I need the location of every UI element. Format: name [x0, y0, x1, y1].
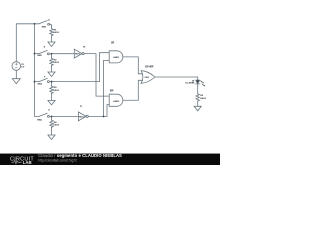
switch SW2	[39, 50, 47, 53]
svg-text:B'F: B'F	[110, 91, 114, 93]
svg-text:100 Ω: 100 Ω	[53, 90, 59, 92]
wire AND1 output to OR top input	[123, 57, 143, 74]
OR gate OR1	[141, 71, 155, 84]
wire R3 to ground	[51, 94, 53, 101]
wire SW2 node down	[51, 54, 53, 58]
node bus row3	[34, 81, 36, 83]
AND gate AND2	[109, 94, 123, 106]
svg-text:AND1: AND1	[113, 56, 120, 59]
bus vertical wire	[34, 24, 36, 117]
wire bus to SW2	[35, 53, 40, 55]
svg-text:LTL-30TBK: LTL-30TBK	[185, 83, 195, 85]
wire SW4 node down	[51, 116, 53, 119]
wire R2 to ground	[51, 66, 53, 72]
voltage source V1	[12, 62, 21, 71]
ground row1	[48, 42, 55, 47]
resistor R5	[196, 93, 199, 101]
wire OR1 output to LED	[155, 77, 198, 80]
wire row4 node to NOT2	[52, 115, 79, 117]
ground row3	[48, 100, 55, 105]
svg-text:Claudio / segmento e CLAUDIO N: Claudio / segmento e CLAUDIO NIEBLAS	[38, 153, 122, 158]
resistor R4	[50, 120, 53, 128]
CircuitLab logo	[10, 156, 34, 164]
switch SW4	[39, 113, 47, 116]
svg-text:100 Ω: 100 Ω	[53, 62, 59, 64]
resistor R3	[50, 86, 53, 94]
switch SW1	[39, 21, 47, 24]
LED arrows	[201, 81, 205, 86]
wire NOT1 output down to AND2 top input	[84, 54, 109, 97]
AND gate AND1	[109, 51, 123, 63]
node top bus junction	[34, 23, 36, 25]
wire bus to SW4	[35, 115, 40, 117]
node row2 tap	[51, 53, 53, 55]
LED arrowheads	[203, 82, 206, 87]
node D' junction	[103, 115, 105, 117]
wire SW3 node down	[51, 82, 53, 86]
node row3 tap	[51, 81, 53, 83]
resistor R1	[50, 28, 53, 36]
inverter NOT2	[78, 112, 86, 121]
logo waveform	[11, 160, 21, 164]
svg-text:100 Ω: 100 Ω	[53, 124, 59, 126]
ground under R5	[194, 106, 201, 111]
svg-text:http://circuitlab.com/c7sg72: http://circuitlab.com/c7sg72	[38, 158, 77, 162]
wire junction up to AND1 bottom input	[104, 61, 110, 117]
svg-text:OR1: OR1	[145, 77, 150, 79]
wire V1 top to row1	[16, 24, 39, 62]
LED D1	[196, 80, 200, 84]
wire to AND2 bottom input	[107, 105, 109, 117]
svg-text:100 Ω: 100 Ω	[53, 32, 59, 34]
V1 plus sign	[15, 63, 17, 65]
wire R1 to ground	[51, 36, 53, 42]
wire NOT2 output to junction	[88, 115, 107, 117]
svg-text:LAB: LAB	[23, 160, 32, 165]
wire SW1 node down	[51, 26, 53, 29]
switch SW3	[39, 78, 47, 81]
footer bar	[0, 154, 220, 165]
svg-text:NOT1: NOT1	[75, 54, 81, 56]
svg-text:100 Ω: 100 Ω	[200, 98, 206, 100]
node row4 tap	[51, 115, 53, 117]
footer bar top edge	[0, 152, 220, 155]
ground row4	[48, 135, 55, 140]
junction dots	[34, 23, 105, 118]
wire R5 to ground	[197, 102, 199, 107]
footer title text	[38, 153, 122, 163]
svg-text:AND2: AND2	[113, 100, 120, 103]
wire R4 to ground	[51, 128, 53, 135]
V1 minus sign	[15, 67, 17, 69]
wire LED to R5	[197, 84, 199, 93]
node bus row2	[34, 53, 36, 55]
wire row3 node right and up to AND1 top input	[52, 53, 110, 82]
svg-text:OF+B'F: OF+B'F	[145, 66, 154, 68]
wire row2 node to NOT1	[52, 53, 75, 55]
wire AND2 output to OR bottom input	[123, 80, 143, 100]
ground row2	[48, 72, 55, 77]
ground under V1	[12, 79, 20, 84]
resistor R2	[50, 58, 53, 66]
inverter NOT1	[74, 49, 82, 58]
wire V1 bottom to ground	[15, 70, 17, 78]
wire bus to SW3	[35, 81, 40, 83]
svg-text:NOT2: NOT2	[79, 116, 85, 118]
